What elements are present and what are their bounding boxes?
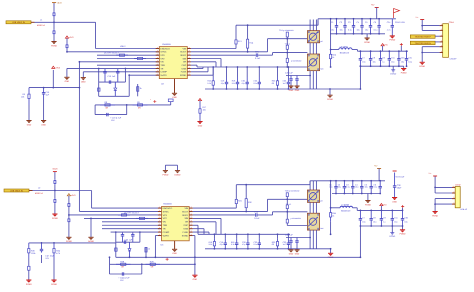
svg-text:47p: 47p <box>220 243 223 246</box>
svg-text:100k: 100k <box>31 252 35 255</box>
svg-text:SIN: SIN <box>183 57 187 60</box>
svg-text:SDBY: SDBY <box>180 54 186 57</box>
svg-text:0.1u: 0.1u <box>374 29 378 32</box>
svg-text:0.1u: 0.1u <box>254 82 258 85</box>
svg-text:SGND: SGND <box>182 234 189 237</box>
svg-text:4: 4 <box>453 202 454 205</box>
svg-text:GND: GND <box>172 252 177 255</box>
svg-text:10u: 10u <box>373 220 376 223</box>
svg-text:EN/UVLO: EN/UVLO <box>163 207 173 210</box>
svg-text:PGND: PGND <box>365 203 371 206</box>
svg-text:3: 3 <box>453 196 454 199</box>
svg-text:PGND: PGND <box>26 283 32 286</box>
svg-text:sec: sec <box>320 68 323 71</box>
svg-text:C7: C7 <box>362 57 364 60</box>
svg-text:TRB: TRB <box>163 224 168 227</box>
svg-text:10k: 10k <box>21 96 24 99</box>
svg-text:5.1k: 5.1k <box>207 82 211 85</box>
svg-text:GND: GND <box>295 89 300 92</box>
svg-text:PGND: PGND <box>401 71 407 74</box>
svg-text:10k: 10k <box>203 109 206 112</box>
svg-text:VN: VN <box>163 221 166 224</box>
svg-text:C3: C3 <box>348 21 350 24</box>
svg-text:C47 10uF: C47 10uF <box>45 255 55 258</box>
svg-text:+3V3: +3V3 <box>56 67 60 70</box>
svg-text:VBUS: VBUS <box>57 1 63 4</box>
svg-text:6: 6 <box>441 50 442 53</box>
svg-text:10u: 10u <box>404 220 407 223</box>
svg-text:5.1k: 5.1k <box>232 82 236 85</box>
svg-text:0.1u: 0.1u <box>408 60 412 63</box>
svg-text:T2B y-connector: T2B y-connector <box>285 190 300 193</box>
svg-text:CON2: CON2 <box>455 183 460 186</box>
svg-text:+ C18 4.7uF: + C18 4.7uF <box>110 116 122 119</box>
svg-text:SYNC: SYNC <box>163 210 169 213</box>
svg-text:47p: 47p <box>242 243 245 246</box>
svg-text:OR: OR <box>183 61 187 64</box>
svg-text:10u: 10u <box>355 186 358 189</box>
svg-text:10u: 10u <box>401 60 404 63</box>
svg-text:1k: 1k <box>148 248 150 251</box>
svg-text:10u: 10u <box>331 29 334 32</box>
svg-text:FLBK: FLBK <box>181 71 187 74</box>
svg-text:SOUT: SOUT <box>180 51 187 54</box>
svg-text:GND: GND <box>295 253 300 256</box>
svg-text:1u: 1u <box>382 60 384 63</box>
svg-text:1: 1 <box>441 23 442 26</box>
svg-text:1k: 1k <box>332 56 334 59</box>
svg-text:TR: TR <box>163 227 166 230</box>
svg-text:L4 600R: L4 600R <box>341 204 349 207</box>
svg-text:GND: GND <box>193 278 198 281</box>
svg-text:+3V3: +3V3 <box>71 194 75 197</box>
svg-text:C9: C9 <box>382 57 384 60</box>
svg-text:I2C/SPI SELECT: I2C/SPI SELECT <box>124 211 140 214</box>
svg-text:10u: 10u <box>394 220 397 223</box>
svg-text:PGND: PGND <box>51 283 57 286</box>
svg-text:EN/UVLO: EN/UVLO <box>160 47 170 50</box>
svg-text:C25 1uF: C25 1uF <box>285 72 293 75</box>
svg-text:GND: GND <box>27 123 32 126</box>
svg-text:1u: 1u <box>383 220 385 223</box>
svg-text:VIN: VIN <box>183 47 187 50</box>
svg-text:10uF: 10uF <box>397 187 402 190</box>
svg-text:VuPIO: VuPIO <box>160 74 167 77</box>
svg-text:OR: OR <box>185 221 189 224</box>
svg-text:C6: C6 <box>374 21 376 24</box>
svg-text:1k: 1k <box>332 214 334 217</box>
svg-text:C30: C30 <box>404 217 407 220</box>
svg-text:SOUT: SOUT <box>182 210 189 213</box>
svg-text:0.1u: 0.1u <box>254 243 258 246</box>
svg-text:600R 1A: 600R 1A <box>35 192 43 195</box>
svg-text:10u: 10u <box>365 186 368 189</box>
svg-text:TWISTED PAIR N: TWISTED PAIR N <box>415 42 432 45</box>
svg-text:VN: VN <box>160 61 163 64</box>
svg-text:SYNC: SYNC <box>160 51 166 54</box>
svg-text:C2: C2 <box>340 21 342 24</box>
svg-text:GND: GND <box>289 89 294 92</box>
svg-text:5.1k: 5.1k <box>231 243 235 246</box>
svg-text:4.7u: 4.7u <box>387 29 391 32</box>
svg-text:BeadCore: BeadCore <box>341 210 351 213</box>
svg-text:PGND: PGND <box>432 214 438 217</box>
svg-text:3: 3 <box>441 34 442 37</box>
svg-text:OSP: OSP <box>182 64 187 67</box>
svg-text:10u: 10u <box>362 60 365 63</box>
svg-text:OSP: OSP <box>183 224 188 227</box>
svg-text:C31: C31 <box>408 57 411 60</box>
svg-text:5: 5 <box>441 44 442 47</box>
svg-text:10u: 10u <box>357 29 360 32</box>
svg-text:10u: 10u <box>365 29 368 32</box>
svg-text:C1: C1 <box>331 21 333 24</box>
svg-text:10u: 10u <box>391 60 394 63</box>
svg-text:GND: GND <box>65 80 70 83</box>
svg-text:DGND: DGND <box>389 235 395 238</box>
svg-text:L3 600R: L3 600R <box>340 45 348 48</box>
svg-text:5.1k: 5.1k <box>209 243 213 246</box>
svg-text:10u: 10u <box>362 220 365 223</box>
svg-text:GND: GND <box>172 96 177 99</box>
svg-text:C30: C30 <box>401 57 404 60</box>
svg-text:SN6505B: SN6505B <box>163 203 172 206</box>
svg-text:OSN: OSN <box>183 227 188 230</box>
svg-text:sec: sec <box>320 227 323 230</box>
svg-text:y-connector: y-connector <box>291 60 302 63</box>
svg-text:+: + <box>150 98 151 101</box>
svg-text:2: 2 <box>453 191 454 194</box>
svg-text:USB VBUS IN: USB VBUS IN <box>12 21 25 24</box>
svg-text:PGND: PGND <box>52 217 58 220</box>
svg-text:SN6505B: SN6505B <box>162 43 171 46</box>
svg-text:GND: GND <box>289 253 294 256</box>
svg-text:10u: 10u <box>373 60 376 63</box>
svg-text:0.1u: 0.1u <box>346 186 350 189</box>
svg-text:USB-6P: USB-6P <box>450 57 458 60</box>
svg-text:0.1uF: 0.1uF <box>255 57 261 60</box>
svg-text:PGND: PGND <box>327 98 333 101</box>
svg-text:C8: C8 <box>373 57 375 60</box>
svg-text:10u: 10u <box>340 29 343 32</box>
svg-text:2: 2 <box>441 28 442 31</box>
svg-text:10u: 10u <box>338 186 341 189</box>
svg-text:C9: C9 <box>383 217 385 220</box>
svg-text:GND: GND <box>41 123 46 126</box>
svg-text:USB-4P: USB-4P <box>460 208 468 211</box>
svg-text:+3V3: +3V3 <box>69 36 73 39</box>
svg-text:USB VBUS IN: USB VBUS IN <box>10 189 23 192</box>
svg-text:4: 4 <box>441 40 442 43</box>
svg-text:1: 1 <box>453 185 454 188</box>
svg-text:VuPIO: VuPIO <box>163 234 170 237</box>
svg-text:I2C/SPI SELECT: I2C/SPI SELECT <box>104 52 120 55</box>
svg-text:C34: C34 <box>387 21 390 24</box>
svg-text:COMP: COMP <box>163 231 170 234</box>
svg-text:TRB: TRB <box>160 64 165 67</box>
svg-text:SGND: SGND <box>180 74 187 77</box>
svg-text:C4: C4 <box>357 21 359 24</box>
svg-text:FLBK: FLBK <box>183 231 189 234</box>
svg-text:DGND: DGND <box>175 173 181 176</box>
svg-text:PGND: PGND <box>419 65 425 68</box>
svg-text:4.7k: 4.7k <box>56 252 60 255</box>
svg-text:PGND: PGND <box>389 39 395 42</box>
svg-text:1k: 1k <box>140 87 142 90</box>
svg-text:GND: GND <box>81 80 86 83</box>
svg-text:SDBY: SDBY <box>182 214 188 217</box>
svg-text:y-connector: y-connector <box>291 217 302 220</box>
svg-text:PGND: PGND <box>364 41 370 44</box>
svg-text:0.1u: 0.1u <box>374 186 378 189</box>
svg-text:0.1uF: 0.1uF <box>254 217 260 220</box>
svg-text:TWISTED PAIR P: TWISTED PAIR P <box>415 36 432 39</box>
svg-text:OSN: OSN <box>181 67 186 70</box>
svg-text:GND: GND <box>392 200 397 203</box>
svg-text:47p: 47p <box>241 82 244 85</box>
svg-text:COMP: COMP <box>160 71 167 74</box>
svg-text:CON1: CON1 <box>449 21 454 24</box>
svg-text:C11: C11 <box>391 57 394 60</box>
svg-text:600R 1A: 600R 1A <box>37 24 45 27</box>
svg-text:DGND: DGND <box>390 72 396 75</box>
svg-text:C13 1uF: C13 1uF <box>108 75 116 78</box>
svg-text:+3V3 OUT: +3V3 OUT <box>395 176 405 179</box>
svg-text:C48 1uF: C48 1uF <box>285 234 293 237</box>
svg-text:47p: 47p <box>221 82 224 85</box>
svg-text:VIN: VIN <box>184 207 188 210</box>
svg-text:GND: GND <box>198 124 203 127</box>
svg-text:T1 1:1: T1 1:1 <box>285 42 292 45</box>
svg-text:PGND: PGND <box>51 44 57 47</box>
svg-text:PGND: PGND <box>400 233 406 236</box>
svg-text:C11: C11 <box>394 217 397 220</box>
svg-text:SIN: SIN <box>184 217 188 220</box>
svg-text:P5V0 USB: P5V0 USB <box>395 21 405 24</box>
svg-text:0.1u: 0.1u <box>348 29 352 32</box>
svg-text:VBUS: VBUS <box>120 45 126 48</box>
svg-text:C8: C8 <box>373 217 375 220</box>
svg-text:T1A y-connector: T1A y-connector <box>279 29 294 32</box>
svg-text:VBUS: VBUS <box>52 168 58 171</box>
svg-text:BeadCore: BeadCore <box>340 51 350 54</box>
svg-text:PGND: PGND <box>163 173 169 176</box>
svg-text:C5: C5 <box>365 21 367 24</box>
svg-text:+ C44 4.7uF: + C44 4.7uF <box>118 277 130 280</box>
svg-text:C7: C7 <box>362 217 364 220</box>
svg-text:TR: TR <box>160 67 163 70</box>
